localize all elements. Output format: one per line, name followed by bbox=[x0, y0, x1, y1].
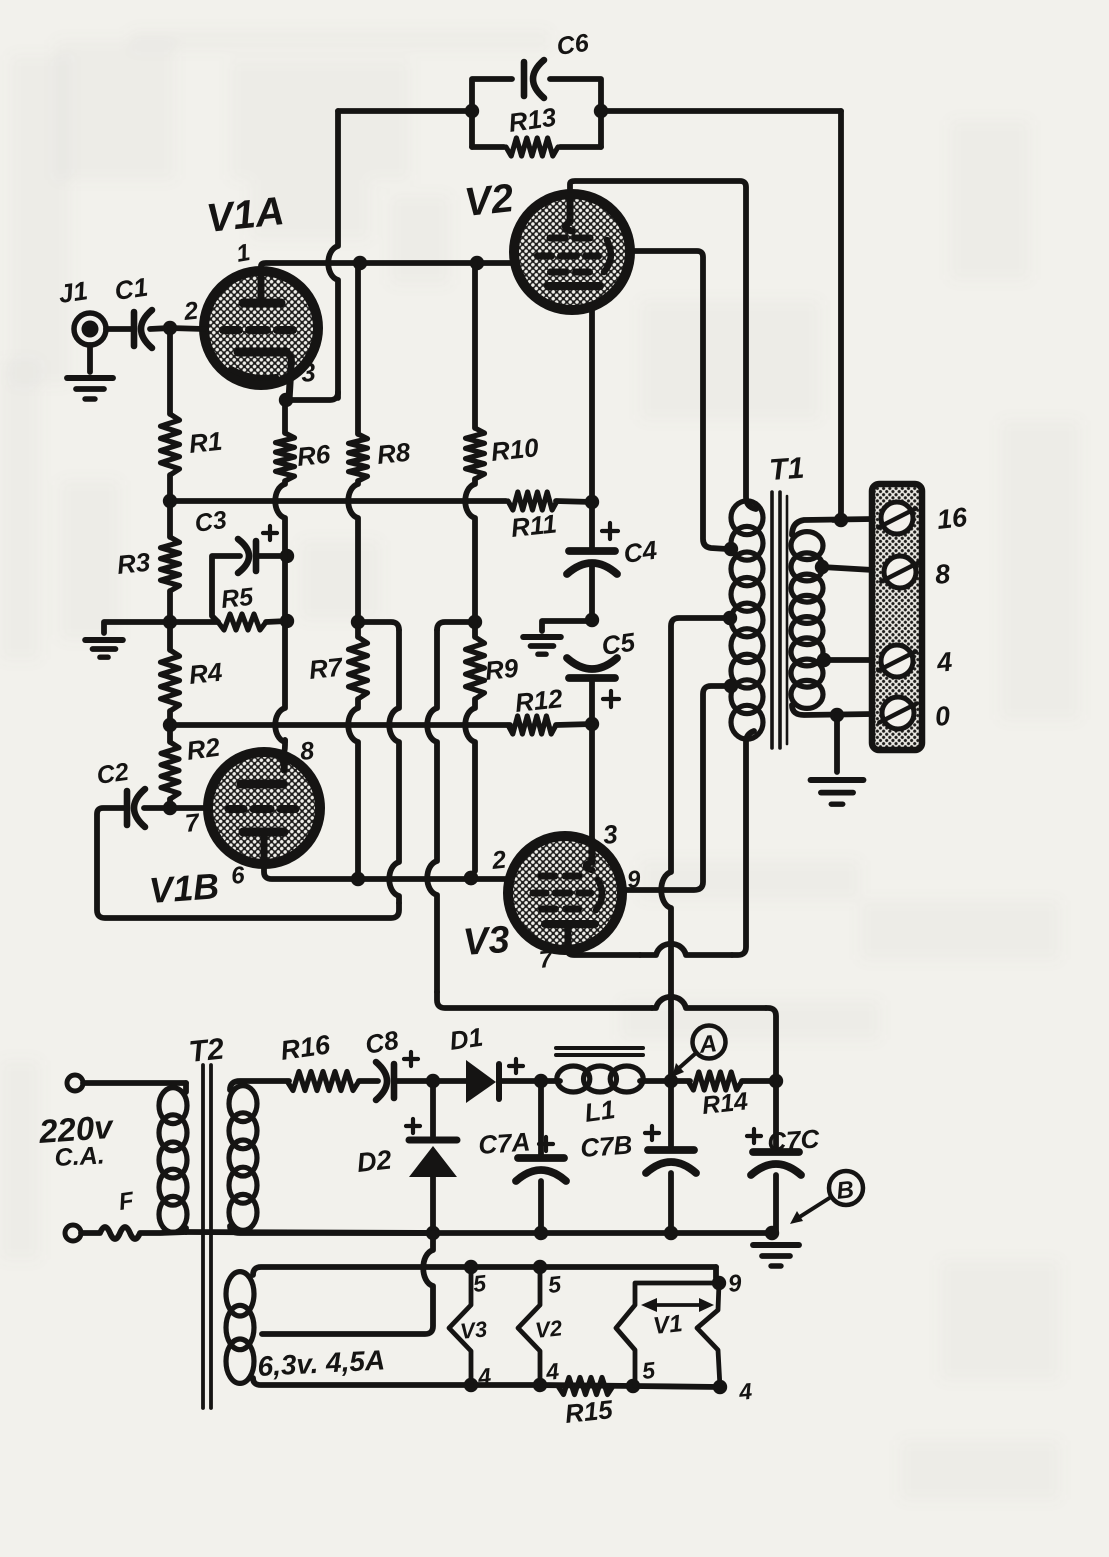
svg-text:C7C: C7C bbox=[766, 1123, 821, 1157]
svg-text:D2: D2 bbox=[355, 1145, 392, 1178]
svg-text:V1B: V1B bbox=[148, 865, 221, 911]
svg-text:V2: V2 bbox=[462, 176, 515, 225]
svg-text:R5: R5 bbox=[220, 583, 256, 614]
svg-text:C1: C1 bbox=[113, 272, 150, 306]
svg-text:R8: R8 bbox=[375, 437, 412, 470]
svg-text:R3: R3 bbox=[115, 547, 152, 580]
svg-text:V3: V3 bbox=[459, 1316, 488, 1344]
svg-text:R1: R1 bbox=[187, 426, 223, 459]
svg-text:R11: R11 bbox=[509, 508, 558, 543]
svg-text:R4: R4 bbox=[187, 657, 224, 690]
svg-text:C7A: C7A bbox=[477, 1126, 531, 1160]
svg-text:T2: T2 bbox=[187, 1032, 226, 1069]
svg-text:R2: R2 bbox=[185, 732, 223, 766]
svg-text:8: 8 bbox=[933, 559, 951, 590]
svg-text:T1: T1 bbox=[768, 452, 805, 487]
svg-text:R15: R15 bbox=[563, 1394, 614, 1429]
svg-text:2: 2 bbox=[182, 297, 200, 326]
svg-text:C8: C8 bbox=[363, 1024, 401, 1059]
svg-text:4: 4 bbox=[934, 647, 953, 679]
svg-text:R12: R12 bbox=[513, 683, 564, 718]
svg-text:C5: C5 bbox=[600, 627, 638, 661]
svg-text:V2: V2 bbox=[534, 1315, 564, 1343]
svg-text:4: 4 bbox=[476, 1363, 493, 1390]
svg-text:D1: D1 bbox=[448, 1022, 485, 1056]
svg-text:0: 0 bbox=[933, 701, 951, 732]
svg-text:C6: C6 bbox=[555, 29, 592, 61]
svg-text:B: B bbox=[835, 1176, 855, 1205]
svg-text:C.A.: C.A. bbox=[54, 1141, 105, 1172]
svg-text:R6: R6 bbox=[295, 439, 332, 472]
svg-text:2: 2 bbox=[490, 846, 508, 875]
svg-text:C2: C2 bbox=[95, 758, 131, 790]
svg-text:V1A: V1A bbox=[204, 189, 286, 241]
svg-text:R7: R7 bbox=[307, 651, 345, 684]
svg-text:C3: C3 bbox=[193, 506, 229, 538]
svg-text:4: 4 bbox=[544, 1358, 561, 1385]
svg-text:16: 16 bbox=[935, 502, 969, 535]
svg-text:A: A bbox=[697, 1030, 718, 1059]
svg-text:V1: V1 bbox=[652, 1310, 684, 1340]
svg-text:R9: R9 bbox=[483, 653, 520, 686]
svg-text:C4: C4 bbox=[622, 535, 660, 569]
svg-text:R10: R10 bbox=[489, 432, 540, 467]
svg-text:4: 4 bbox=[737, 1378, 754, 1405]
svg-text:L1: L1 bbox=[583, 1094, 617, 1128]
svg-text:J1: J1 bbox=[57, 275, 90, 309]
svg-text:R14: R14 bbox=[701, 1087, 750, 1120]
svg-text:C7B: C7B bbox=[579, 1129, 633, 1163]
svg-text:V3: V3 bbox=[462, 919, 511, 964]
